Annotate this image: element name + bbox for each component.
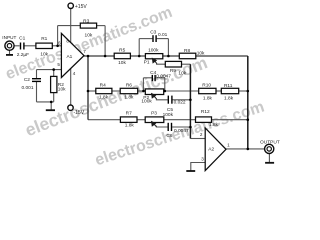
svg-text:1.8k: 1.8k: [224, 95, 234, 101]
wire row2 left: [88, 90, 96, 92]
wire input jack to C1: [14, 45, 20, 47]
wire A2 output to jack: [226, 148, 265, 150]
svg-text:8: 8: [66, 39, 69, 44]
output jack: [265, 144, 274, 153]
svg-text:P1: P1: [144, 60, 150, 66]
svg-text:R11: R11: [224, 83, 233, 89]
junction node C4 left: [142, 90, 145, 93]
wire P1 wiper to R9: [157, 63, 166, 64]
svg-text:C1: C1: [19, 35, 25, 41]
ground R2/C2: [46, 109, 55, 111]
svg-text:R5: R5: [119, 47, 125, 53]
wire C1 to R1: [25, 45, 36, 47]
svg-text:10k: 10k: [178, 71, 186, 77]
svg-text:C2: C2: [24, 77, 30, 83]
wire R1 to A1 pin6: [52, 45, 61, 47]
resistor R1: [36, 43, 52, 48]
junction node C3 left: [138, 55, 141, 58]
resistor R7: [120, 117, 137, 123]
wire R7 to P3: [137, 119, 145, 121]
svg-text:0.022: 0.022: [174, 99, 186, 105]
wire R3 left vertical: [57, 26, 59, 46]
junction node C4 right / P2 right: [164, 90, 167, 93]
capacitor C3: [152, 35, 154, 42]
ground output jack: [265, 162, 274, 164]
svg-text:R4: R4: [100, 83, 106, 89]
wire output jack ground stem: [268, 153, 270, 162]
svg-text:10k: 10k: [58, 86, 66, 92]
junction node C6 to bus: [189, 126, 192, 129]
svg-text:C6: C6: [166, 133, 172, 139]
junction node R11 to bus: [247, 90, 250, 93]
svg-text:0.01: 0.01: [158, 32, 168, 38]
resistor R8: [179, 53, 196, 59]
svg-text:1: 1: [227, 143, 230, 148]
svg-text:3: 3: [201, 156, 204, 161]
wire A1 output drop vertical: [87, 56, 89, 120]
wire C4 right vertical: [164, 78, 166, 91]
svg-text:2: 2: [200, 132, 203, 137]
wire C2 top vertical: [36, 70, 38, 79]
svg-text:-15V: -15V: [74, 110, 85, 116]
resistor R6: [120, 88, 138, 93]
resistor R12: [196, 117, 212, 123]
wire C4 left horizontal: [143, 77, 151, 79]
junction node C3 right: [167, 55, 170, 58]
svg-text:2.2µF: 2.2µF: [17, 52, 29, 58]
capacitor C5: [167, 96, 169, 104]
svg-text:7: 7: [83, 49, 86, 54]
svg-text:R12: R12: [201, 109, 210, 115]
summing bus vertical: [189, 64, 191, 138]
wire R3 left horizontal: [58, 25, 81, 27]
capacitor C4: [151, 75, 153, 81]
svg-text:+15V: +15V: [75, 4, 87, 10]
wire R11 to feedback bus: [239, 90, 248, 92]
potentiometer P2: [145, 89, 163, 95]
svg-text:1.8k: 1.8k: [209, 122, 219, 128]
wire C3 left vertical: [138, 39, 140, 56]
wire A1 pin5: [37, 69, 62, 71]
svg-text:OUTPUT: OUTPUT: [260, 140, 280, 146]
resistor R3: [80, 23, 96, 28]
svg-text:R1: R1: [41, 36, 47, 42]
wire R5 to P1: [130, 55, 145, 57]
potentiometer P3 wiper arrow: [152, 122, 157, 127]
wire P3 to R12: [164, 119, 196, 121]
wire bottom horizontal C2-R2: [37, 101, 54, 103]
svg-text:1.8k: 1.8k: [125, 123, 135, 129]
+15V terminal: [68, 3, 73, 8]
junction node pin5/R2: [52, 68, 55, 71]
wire row3 left: [88, 119, 120, 121]
wire R6 to P2: [138, 90, 146, 92]
wire R4 to R6: [112, 90, 120, 92]
wire input jack ground stem: [9, 50, 11, 55]
wire C3 right horizontal: [157, 38, 169, 40]
junction node R12 to bus: [247, 118, 250, 121]
wire R9 to summing bus: [182, 63, 191, 65]
potentiometer P1: [145, 54, 162, 59]
op-amp A1: [61, 33, 84, 77]
svg-text:1.8k: 1.8k: [124, 95, 134, 101]
wire R2 top vertical: [53, 70, 55, 77]
svg-text:0.0047: 0.0047: [156, 73, 171, 79]
wire R12 to feedback bus: [212, 119, 248, 121]
resistor R9: [165, 61, 181, 67]
wire C4 right horizontal: [156, 77, 165, 79]
-15V terminal: [68, 105, 73, 110]
svg-text:10k: 10k: [197, 50, 205, 56]
ground input jack: [6, 54, 13, 56]
op-amp A2: [205, 128, 226, 171]
svg-text:R6: R6: [126, 83, 132, 89]
junction node R1/R3 input: [56, 45, 59, 48]
wire P3 wiper to C6: [156, 126, 167, 127]
svg-text:100k: 100k: [141, 99, 152, 105]
wire R3 right vertical: [104, 26, 106, 56]
wire C5 to summing bus: [173, 99, 191, 101]
svg-text:R8: R8: [184, 48, 190, 54]
wire P2 to R10: [164, 90, 199, 92]
svg-text:5: 5: [57, 62, 60, 67]
svg-text:C5: C5: [167, 107, 173, 113]
svg-text:10k: 10k: [40, 52, 48, 58]
svg-text:1.8k: 1.8k: [99, 95, 109, 101]
wire P1 to R8: [163, 55, 180, 57]
svg-text:0.0047: 0.0047: [174, 128, 189, 134]
feedback bus vertical: [247, 56, 249, 149]
watermark electroschematics.com (top diagonal): [3, 4, 266, 169]
capacitor C6: [167, 123, 169, 131]
junction node row2 drop: [87, 90, 90, 93]
svg-text:4: 4: [73, 71, 76, 76]
wire R2 ground stem: [50, 102, 52, 110]
resistor R10: [199, 88, 216, 93]
junction node R3 right: [104, 55, 107, 58]
potentiometer P3: [145, 117, 164, 123]
wire +15V supply to A1 pin8: [70, 9, 72, 43]
wire R10 to R11: [216, 90, 221, 92]
svg-text:A2: A2: [208, 147, 214, 153]
wire R8 to feedback bus corner: [196, 55, 248, 57]
ground A2 pin3: [186, 170, 195, 172]
wire C3 left horizontal: [139, 38, 152, 40]
input jack: [5, 41, 14, 50]
svg-text:A1: A1: [66, 54, 72, 60]
svg-text:P3: P3: [151, 111, 157, 117]
potentiometer P1 wiper arrow: [152, 58, 156, 63]
svg-text:1.8k: 1.8k: [203, 95, 213, 101]
junction node bus to output: [247, 148, 250, 151]
svg-text:10k: 10k: [118, 60, 126, 66]
resistor R5: [114, 53, 130, 59]
wire A1 output line: [84, 55, 114, 57]
potentiometer P2 wiper arrow: [152, 94, 157, 99]
svg-text:100k: 100k: [163, 112, 174, 118]
svg-text:R7: R7: [126, 110, 132, 116]
wire A2 pin3 to ground: [191, 163, 205, 172]
svg-text:0.001: 0.001: [21, 85, 33, 91]
junction node C2/R2 bottom: [50, 101, 53, 104]
svg-text:R9: R9: [170, 68, 176, 74]
svg-text:100k: 100k: [148, 47, 159, 53]
svg-text:10k: 10k: [85, 33, 93, 39]
svg-text:C3: C3: [150, 30, 156, 36]
wire C6 to summing bus: [172, 126, 190, 128]
wire R2 bottom vertical: [53, 93, 55, 102]
junction node A1 out drop: [87, 55, 90, 58]
wire C3 right vertical: [167, 39, 169, 56]
svg-text:R10: R10: [202, 82, 211, 88]
resistor R2: [51, 76, 57, 92]
svg-text:R3: R3: [83, 18, 89, 24]
wire C2 bottom vertical: [36, 82, 38, 102]
svg-text:6: 6: [58, 40, 61, 45]
junction node C5 to bus: [189, 99, 192, 102]
wire R3 right horizontal: [97, 25, 106, 27]
wire A1 pin4 to -15V supply: [70, 68, 72, 105]
capacitor C1: [20, 43, 22, 50]
resistor R4: [96, 88, 112, 93]
wire P2 wiper to C5: [156, 98, 167, 100]
wire C4 left vertical: [142, 78, 144, 91]
wire summing bus to A2 pin2: [190, 138, 205, 140]
resistor R11: [221, 88, 238, 93]
capacitor C2: [32, 78, 41, 80]
svg-text:INPUT: INPUT: [2, 35, 16, 40]
